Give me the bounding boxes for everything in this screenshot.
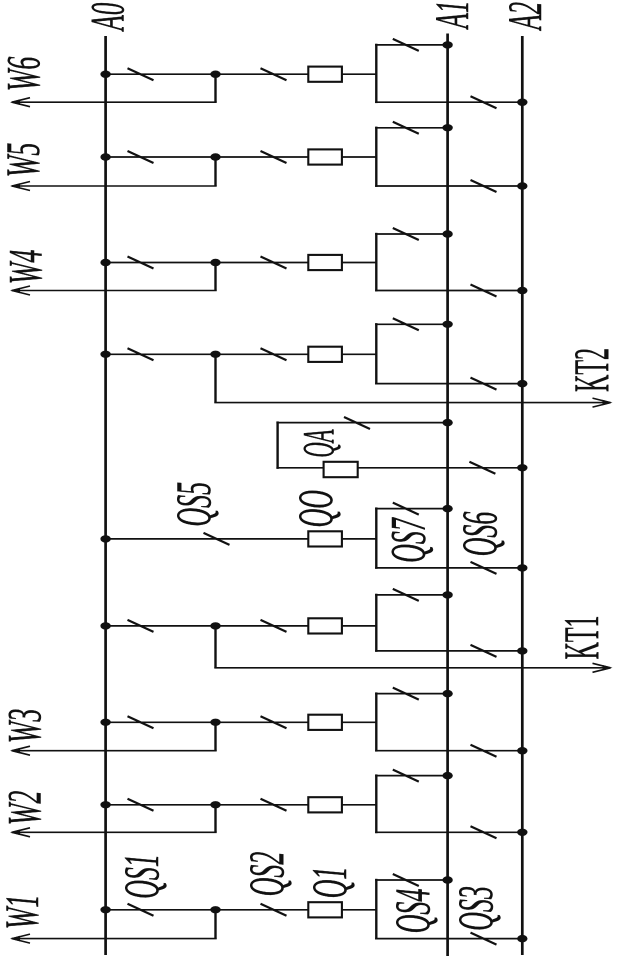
wire: feeder line W5 — [12, 185, 217, 187]
wire: junction to breaker (W3 bay) — [216, 721, 309, 723]
wire: lower branch to bus A2 (W2 bay) — [375, 831, 522, 833]
node: W3 bay junction on bus A2 — [517, 747, 527, 754]
wire: lower branch to bus A2 (W3 bay) — [375, 750, 522, 752]
node: W5 bay junction on bus A1 — [442, 124, 452, 131]
svg-text:QS5: QS5 — [165, 482, 221, 527]
node: W5 bay junction on bus A2 — [517, 182, 527, 189]
node: line junction (W4 bay) — [210, 259, 220, 266]
svg-text:W2: W2 — [0, 791, 52, 826]
wire: lower branch to bus A2 (KT1 bay) — [375, 650, 522, 652]
node: bay W1 tap on bus A0 — [100, 906, 110, 913]
node: line junction (KT1 bay) — [210, 622, 220, 629]
svg-text:QO: QO — [287, 490, 343, 528]
breaker (W5 bay) — [308, 149, 342, 164]
wire: bus-selector riser (W3 bay) — [375, 692, 377, 751]
disconnector line switch (W5 bay) — [261, 151, 287, 163]
wire: bus A0 to breaker QO — [106, 538, 309, 540]
wire: junction to breaker (W2 bay) — [216, 804, 309, 806]
wire: breaker QA to bus A2 — [358, 467, 522, 469]
node: W6 bay junction on bus A2 — [517, 99, 527, 106]
node: bay W6 tap on bus A0 — [100, 71, 110, 78]
wire: breaker to bus-selector (W2 bay) — [342, 804, 376, 806]
svg-text:QA: QA — [295, 429, 343, 458]
wire: junction to breaker (W5 bay) — [216, 156, 309, 158]
wire: bus A0 to junction (W4 bay) — [106, 262, 216, 264]
disconnector line switch (W2 bay) — [261, 799, 287, 811]
breaker QO — [308, 531, 342, 546]
wire: bus A0 to junction (KT1 bay) — [106, 625, 216, 627]
disconnector line switch (W6 bay) — [261, 68, 287, 80]
wire: breaker to bus-selector (W6 bay) — [342, 73, 376, 75]
wire: bus A0 to junction (W5 bay) — [106, 156, 216, 158]
wire: drop to line KT2 — [214, 354, 216, 402]
disconnector bus A1 selector (KT2 bay) — [393, 318, 419, 330]
wire: drop to feeder W1 — [214, 910, 216, 939]
wire: bus-selector riser (W5 bay) — [375, 127, 377, 187]
wire: junction to breaker (KT1 bay) — [216, 625, 309, 627]
wire: coupler QA riser — [276, 421, 278, 469]
disconnector bus A1 selector (KT1 bay) — [393, 589, 419, 601]
arrow: feeder W2 outgoing — [10, 828, 30, 837]
node: line junction (W6 bay) — [210, 71, 220, 78]
wire: breaker to bus-selector (W3 bay) — [342, 721, 376, 723]
node: line junction (W3 bay) — [210, 719, 220, 726]
wire: upper branch to bus A1 (W6 bay) — [375, 44, 448, 46]
disconnector QS6 switch — [471, 562, 497, 574]
disconnector bus A1 selector (W2 bay) — [393, 770, 419, 782]
disconnector bus A1 selector (W4 bay) — [393, 228, 419, 240]
disconnector QS7 switch — [393, 503, 419, 515]
arrow: feeder W5 outgoing — [10, 182, 30, 191]
breaker QA — [324, 462, 358, 477]
wire: breaker to bus-selector (KT2 bay) — [342, 353, 376, 355]
wire: lower branch to bus A2 (KT2 bay) — [375, 383, 522, 385]
wire: upper branch to bus A1 (W3 bay) — [375, 693, 448, 695]
node: line junction (KT2 bay) — [210, 351, 220, 358]
wire: upper branch to bus A1 (W2 bay) — [375, 775, 448, 777]
node: W4 bay junction on bus A1 — [442, 230, 452, 237]
disconnector bypass-side switch (W5 bay) — [128, 151, 154, 163]
node: line junction (W5 bay) — [210, 153, 220, 160]
node: bay W5 tap on bus A0 — [100, 153, 110, 160]
svg-text:A1: A1 — [427, 1, 480, 31]
wire: drop to feeder W2 — [214, 805, 216, 833]
wire: bus-selector riser (KT2 bay) — [375, 323, 377, 384]
node: coupler tap on bus A0 — [100, 535, 110, 542]
disconnector QS1 — [128, 904, 154, 916]
wire: feeder line W1 — [12, 938, 217, 940]
svg-text:W4: W4 — [0, 250, 52, 285]
disconnector bus A2 selector (W3 bay) — [471, 745, 497, 757]
disconnector (QA bay, bus A1 side) — [344, 417, 370, 429]
disconnector bypass-side switch (KT2 bay) — [128, 348, 154, 360]
wire: bus-selector riser (W4 bay) — [375, 233, 377, 292]
node: KT1 bay junction on bus A2 — [517, 647, 527, 654]
disconnector QS4 — [393, 874, 419, 886]
disconnector line switch (W4 bay) — [261, 257, 287, 269]
node: KT1 bay junction on bus A1 — [442, 591, 452, 598]
disconnector bus A1 selector (W5 bay) — [393, 122, 419, 134]
node: W6 bay junction on bus A1 — [442, 41, 452, 48]
arrow: line KT2 outgoing — [593, 398, 613, 407]
disconnector bypass-side switch (KT1 bay) — [128, 620, 154, 632]
node: line junction (W2 bay) — [210, 801, 220, 808]
wire: feeder line W3 — [12, 750, 217, 752]
wire: lower branch to bus A2 (W1 bay) — [375, 938, 522, 940]
wire: bus-selector riser (W6 bay) — [375, 44, 377, 103]
wire: bus A0 to junction (W2 bay) — [106, 804, 216, 806]
disconnector bus A2 selector (KT1 bay) — [471, 645, 497, 657]
wire: bus A0 to junction (W1 bay) — [106, 909, 216, 911]
breaker (W2 bay) — [308, 797, 342, 812]
arrow: line KT1 outgoing — [593, 663, 613, 672]
svg-text:QS4: QS4 — [384, 889, 440, 934]
svg-text:KT1: KT1 — [555, 616, 610, 660]
breaker (W3 bay) — [308, 715, 342, 730]
wire: junction to breaker (W1 bay) — [216, 909, 309, 911]
disconnector bypass-side switch (W2 bay) — [128, 799, 154, 811]
disconnector bus A2 selector (W6 bay) — [471, 96, 497, 108]
disconnector line switch (W3 bay) — [261, 716, 287, 728]
node: QA bay junction on bus A2 — [517, 464, 527, 471]
arrow: feeder W4 outgoing — [10, 286, 30, 295]
wire: upper branch to bus A1 (KT2 bay) — [375, 323, 448, 325]
wire: feeder line W4 — [12, 290, 217, 292]
node: W4 bay junction on bus A2 — [517, 287, 527, 294]
disconnector bus A2 selector (W4 bay) — [471, 285, 497, 297]
wire: bus A0 to junction (W3 bay) — [106, 721, 216, 723]
disconnector bus A2 selector (KT2 bay) — [471, 378, 497, 390]
breaker (KT2 bay) — [308, 347, 342, 362]
node: W2 bay junction on bus A1 — [442, 772, 452, 779]
arrow: feeder W3 outgoing — [10, 746, 30, 755]
node: coupler junction on bus A1 — [442, 505, 452, 512]
node: KT2 bay junction on bus A2 — [517, 380, 527, 387]
disconnector bus A1 selector (W6 bay) — [393, 39, 419, 51]
wire: line KT2 across buses — [214, 402, 610, 404]
wire: breaker to bus-selector (KT1 bay) — [342, 625, 376, 627]
disconnector line switch (KT1 bay) — [261, 620, 287, 632]
node: line junction (W1 bay) — [210, 906, 220, 913]
node: bay W4 tap on bus A0 — [100, 259, 110, 266]
svg-text:QS3: QS3 — [447, 886, 503, 931]
wire: coupler upper branch to bus A1 — [276, 422, 447, 424]
wire: upper branch to bus A1 (W4 bay) — [375, 233, 448, 235]
wire: bus A0 to junction (KT2 bay) — [106, 353, 216, 355]
svg-text:Q1: Q1 — [301, 867, 357, 899]
wire: upper branch to bus A1 (W5 bay) — [375, 127, 448, 129]
wire: bus-selector riser (KT1 bay) — [375, 594, 377, 652]
disconnector line switch (KT2 bay) — [261, 348, 287, 360]
wire: feeder line W2 — [12, 831, 217, 833]
node: bay KT2 tap on bus A0 — [100, 351, 110, 358]
breaker (W4 bay) — [308, 255, 342, 270]
svg-text:QS1: QS1 — [113, 854, 169, 899]
wire: junction to breaker (W4 bay) — [216, 262, 309, 264]
wire: breaker to bus-selector (W4 bay) — [342, 262, 376, 264]
disconnector bus A2 selector (W2 bay) — [471, 826, 497, 838]
disconnector bypass-side switch (W3 bay) — [128, 716, 154, 728]
wire: lower branch to bus A2 (W6 bay) — [375, 101, 522, 103]
wire: drop to feeder W5 — [214, 157, 216, 186]
wire: breaker QO to bus-selector — [342, 538, 376, 540]
arrow: feeder W1 outgoing — [10, 934, 30, 943]
svg-text:A0: A0 — [82, 3, 135, 33]
bus A0 (bypass busbar) — [104, 36, 107, 955]
wire: upper branch to bus A1 (KT1 bay) — [375, 594, 448, 596]
wire: bus-selector riser (W2 bay) — [375, 774, 377, 833]
disconnector bus A2 selector (W5 bay) — [471, 180, 497, 192]
svg-text:QS6: QS6 — [451, 512, 507, 557]
disconnector QS3 — [471, 933, 497, 945]
wire: coupler riser to breaker QA — [276, 467, 323, 469]
bus A1 (main busbar) — [446, 34, 449, 957]
node: KT2 bay junction on bus A1 — [442, 321, 452, 328]
disconnector bus A1 selector (W3 bay) — [393, 688, 419, 700]
disconnector bypass-side switch (W6 bay) — [128, 68, 154, 80]
node: QA bay junction on bus A1 — [442, 419, 452, 426]
breaker Q1 — [308, 902, 342, 917]
node: bay W3 tap on bus A0 — [100, 719, 110, 726]
disconnector QS5 — [204, 533, 230, 545]
wire: junction to breaker (KT2 bay) — [216, 353, 309, 355]
svg-text:A2: A2 — [500, 2, 553, 32]
wire: coupler lower branch to bus A2 — [375, 567, 522, 569]
disconnector QS2 — [261, 904, 287, 916]
node: bay KT1 tap on bus A0 — [100, 622, 110, 629]
svg-text:QS7: QS7 — [379, 517, 435, 563]
wire: drop to feeder W3 — [214, 722, 216, 750]
svg-text:W5: W5 — [0, 143, 50, 178]
wire: breaker to bus-selector (W1 bay) — [342, 909, 376, 911]
node: bay W2 tap on bus A0 — [100, 801, 110, 808]
node: coupler junction on bus A2 — [517, 564, 527, 571]
svg-text:KT2: KT2 — [565, 348, 617, 392]
wire: bus-selector riser (W1 bay) — [375, 879, 377, 940]
wire: drop to line KT1 — [214, 626, 216, 668]
wire: feeder line W6 — [12, 101, 217, 103]
svg-text:W1: W1 — [0, 895, 49, 930]
wire: bus A0 to junction (W6 bay) — [106, 73, 216, 75]
wire: upper branch to bus A1 (W1 bay) — [375, 879, 448, 881]
svg-text:QS2: QS2 — [238, 852, 294, 897]
arrow: feeder W6 outgoing — [10, 98, 30, 107]
node: W1 bay junction on bus A1 — [442, 876, 452, 883]
wire: lower branch to bus A2 (W4 bay) — [375, 290, 522, 292]
wire: drop to feeder W6 — [214, 74, 216, 102]
node: W2 bay junction on bus A2 — [517, 829, 527, 836]
svg-text:W3: W3 — [0, 709, 52, 744]
wire: line KT1 across buses — [214, 667, 610, 669]
breaker (W6 bay) — [308, 67, 342, 82]
wire: lower branch to bus A2 (W5 bay) — [375, 185, 522, 187]
disconnector bypass-side switch (W4 bay) — [128, 257, 154, 269]
svg-text:W6: W6 — [0, 56, 51, 91]
node: W1 bay junction on bus A2 — [517, 935, 527, 942]
wire: junction to breaker (W6 bay) — [216, 73, 309, 75]
wire: coupler upper branch to bus A1 — [375, 508, 448, 510]
breaker (KT1 bay) — [308, 618, 342, 633]
bus A2 (transfer busbar) — [521, 36, 524, 955]
disconnector (QA bay, bus A2 side) — [469, 462, 495, 474]
wire: drop to feeder W4 — [214, 263, 216, 291]
wire: breaker to bus-selector (W5 bay) — [342, 156, 376, 158]
wire: coupler bus-selector riser — [375, 507, 377, 568]
node: W3 bay junction on bus A1 — [442, 690, 452, 697]
